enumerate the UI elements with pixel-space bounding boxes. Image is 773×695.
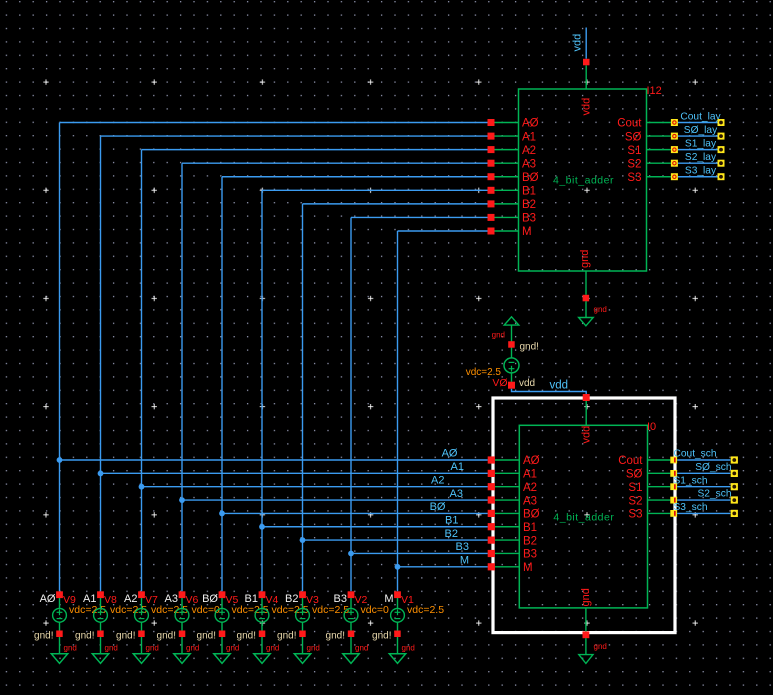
svg-text:4_bit_adder: 4_bit_adder [553,175,614,187]
svg-text:B3: B3 [334,593,347,605]
svg-text:SØ_lay: SØ_lay [684,125,718,136]
svg-text:S1: S1 [627,145,641,157]
svg-text:S2: S2 [627,158,641,170]
svg-text:gnd: gnd [266,644,279,653]
svg-text:gnd!: gnd! [75,631,94,642]
svg-text:Cout_sch: Cout_sch [674,449,717,460]
svg-text:AØ: AØ [522,118,539,130]
svg-text:SØ: SØ [625,131,642,143]
svg-text:AØ: AØ [523,455,540,467]
svg-text:M: M [460,555,469,567]
svg-text:gnd: gnd [105,644,118,653]
svg-text:S2_lay: S2_lay [685,152,717,163]
svg-text:A1: A1 [83,593,96,605]
svg-text:B2: B2 [522,199,536,211]
svg-text:B3: B3 [523,549,537,561]
svg-text:gnd!: gnd! [157,631,176,642]
svg-text:gnd: gnd [580,588,592,606]
svg-text:B1: B1 [523,522,537,534]
svg-text:gnd: gnd [579,250,591,268]
svg-text:A1: A1 [522,131,536,143]
svg-text:BØ: BØ [522,172,539,184]
svg-text:vdd: vdd [519,378,535,389]
svg-text:A2: A2 [523,482,537,494]
svg-text:S2_sch: S2_sch [698,489,732,500]
svg-text:A3: A3 [523,495,537,507]
svg-text:BØ: BØ [523,509,540,521]
svg-text:AØ: AØ [40,593,56,605]
svg-text:A3: A3 [165,593,178,605]
svg-text:gnd: gnd [402,644,415,653]
svg-text:S3: S3 [628,509,642,521]
svg-text:VØ: VØ [492,377,507,389]
svg-text:A3: A3 [450,488,463,500]
svg-text:vdd: vdd [572,34,584,52]
svg-text:BØ: BØ [202,593,218,605]
svg-text:S1_lay: S1_lay [685,138,717,149]
svg-text:S3_lay: S3_lay [685,166,717,177]
svg-text:A3: A3 [522,158,536,170]
svg-text:BØ: BØ [430,501,446,513]
svg-text:vdd: vdd [581,98,593,116]
svg-text:A2: A2 [431,474,444,486]
svg-text:vdc=2.5: vdc=2.5 [232,604,269,616]
svg-text:Cout: Cout [617,118,642,130]
svg-text:vdd: vdd [581,426,593,444]
svg-text:I0: I0 [647,421,656,433]
svg-text:A1: A1 [523,469,537,481]
svg-text:gnd!: gnd! [372,631,391,642]
svg-text:gnd: gnd [594,642,607,651]
svg-text:gnd: gnd [355,644,368,653]
svg-text:AØ: AØ [442,448,458,460]
svg-text:gnd: gnd [594,305,607,314]
svg-text:4_bit_adder: 4_bit_adder [553,512,614,524]
svg-text:S2: S2 [628,495,642,507]
svg-text:B1: B1 [522,186,536,198]
svg-text:gnd!: gnd! [326,631,345,642]
svg-text:A2: A2 [124,593,137,605]
svg-text:M: M [523,562,533,574]
svg-text:gnd!: gnd! [197,631,216,642]
svg-text:gnd!: gnd! [277,631,296,642]
svg-text:A2: A2 [522,145,536,157]
svg-text:B3: B3 [456,541,469,553]
svg-text:vdc=2.5: vdc=2.5 [407,604,444,616]
svg-text:B2: B2 [285,593,298,605]
svg-text:vdd: vdd [550,380,569,392]
svg-text:M: M [384,593,393,605]
svg-text:S1_sch: S1_sch [674,475,708,486]
svg-text:gnd: gnd [186,644,199,653]
svg-text:SØ_sch: SØ_sch [695,462,731,473]
svg-text:I12: I12 [647,85,662,97]
svg-text:S3: S3 [627,172,641,184]
svg-text:B2: B2 [523,535,537,547]
svg-text:SØ: SØ [626,469,643,481]
svg-text:gnd: gnd [226,644,239,653]
svg-text:B1: B1 [245,593,258,605]
svg-text:gnd!: gnd! [34,631,53,642]
svg-text:B2: B2 [445,528,458,540]
svg-text:Cout_lay: Cout_lay [680,111,721,122]
svg-text:B1: B1 [445,514,458,526]
svg-text:gnd: gnd [307,644,320,653]
svg-text:gnd!: gnd! [520,342,539,353]
svg-text:M: M [522,226,532,238]
svg-text:gnd: gnd [146,644,159,653]
svg-text:Cout: Cout [618,455,643,467]
svg-text:S3_sch: S3_sch [674,502,708,513]
svg-text:S1: S1 [628,482,642,494]
svg-text:vdc=0: vdc=0 [361,604,389,616]
svg-text:B3: B3 [522,213,536,225]
svg-text:A1: A1 [451,461,464,473]
svg-text:gnd!: gnd! [116,631,135,642]
svg-text:gnd!: gnd! [237,631,256,642]
svg-text:gnd: gnd [64,644,77,653]
svg-text:gnd: gnd [492,331,505,340]
